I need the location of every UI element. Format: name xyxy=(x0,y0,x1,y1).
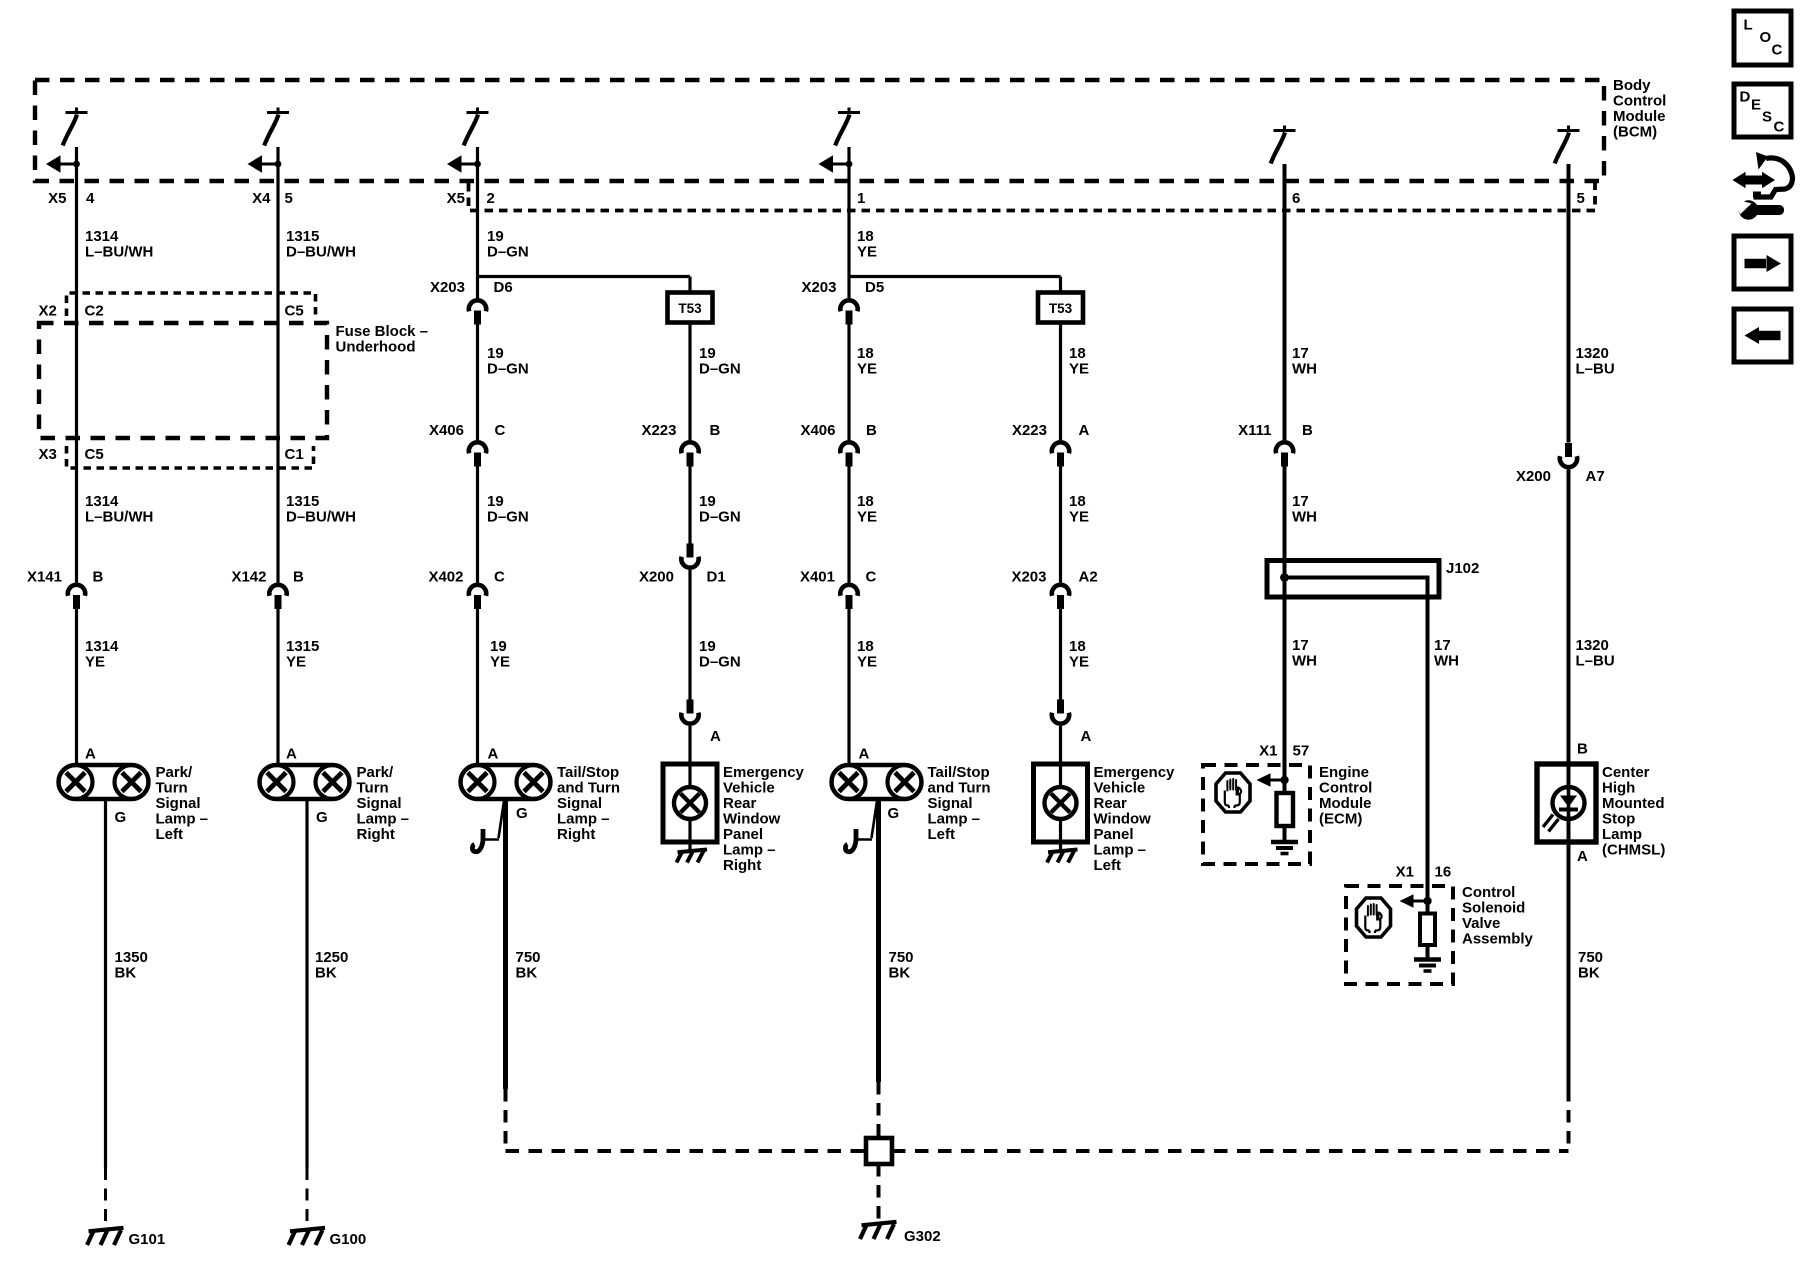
svg-text:X406: X406 xyxy=(429,422,464,439)
wire 17 WH X111 through J102 to ECM xyxy=(1283,467,1287,794)
wire label 19 D-GN (below T53) xyxy=(699,345,741,378)
svg-text:YE: YE xyxy=(286,654,306,671)
DESC reference box icon xyxy=(1734,84,1791,137)
CHMSL pin label A xyxy=(1577,848,1588,865)
svg-text:WH: WH xyxy=(1292,361,1317,378)
BCM internal switch (pin X5-4) xyxy=(63,108,88,146)
svg-text:X200: X200 xyxy=(639,569,674,586)
lamp pin label A xyxy=(488,746,499,763)
svg-text:BK: BK xyxy=(516,965,538,982)
svg-text:BK: BK xyxy=(315,965,337,982)
Emergency Vehicle Rear Window Panel Lamp - Left name xyxy=(1094,764,1176,874)
svg-text:D6: D6 xyxy=(494,279,513,296)
lamp pin label G xyxy=(316,809,328,826)
svg-text:B: B xyxy=(293,569,304,586)
svg-text:G302: G302 xyxy=(904,1228,941,1245)
svg-text:X401: X401 xyxy=(800,569,835,586)
svg-text:Assembly: Assembly xyxy=(1462,931,1534,948)
wire label 17 WH (below X111) xyxy=(1292,493,1317,526)
svg-text:D1: D1 xyxy=(707,569,726,586)
wire 19 D-GN X200 to lamp connector xyxy=(688,570,691,700)
svg-text:1315: 1315 xyxy=(286,638,319,655)
connector label X223 B xyxy=(641,422,720,439)
wire 19 YE to tail lamp xyxy=(476,609,479,765)
ground pigtail at right tail lamp xyxy=(472,801,504,852)
svg-text:YE: YE xyxy=(1069,509,1089,526)
Center High Mounted Stop Lamp box xyxy=(1537,764,1596,842)
svg-text:18: 18 xyxy=(857,493,874,510)
svg-text:5: 5 xyxy=(285,190,293,207)
svg-text:D–GN: D–GN xyxy=(699,509,741,526)
svg-text:Lamp –: Lamp – xyxy=(928,811,981,828)
svg-text:A: A xyxy=(488,746,499,763)
svg-text:Signal: Signal xyxy=(357,795,402,812)
dashed wire to G101 xyxy=(104,1168,107,1231)
wire label 1320 L-BU (lower) xyxy=(1576,637,1615,670)
Emergency Vehicle Rear Window Panel Lamp - Left box xyxy=(1034,764,1088,842)
svg-text:YE: YE xyxy=(857,509,877,526)
svg-text:BK: BK xyxy=(115,965,137,982)
svg-text:X406: X406 xyxy=(800,422,835,439)
svg-text:G101: G101 xyxy=(129,1231,166,1248)
svg-text:Right: Right xyxy=(557,826,595,843)
Emergency Vehicle Rear Window Panel Lamp - Right box xyxy=(663,764,717,842)
wire BCM pin 1 down xyxy=(847,147,850,298)
wire label 19 D-GN (third) xyxy=(487,493,529,526)
svg-text:G100: G100 xyxy=(330,1231,367,1248)
svg-text:G: G xyxy=(115,809,127,826)
wire label 1314 YE xyxy=(85,638,119,671)
ground G100 xyxy=(289,1228,326,1245)
svg-text:A: A xyxy=(85,746,96,763)
svg-text:17: 17 xyxy=(1292,345,1309,362)
wire 1320 L-BU to CHMSL xyxy=(1567,470,1571,765)
wire label 1350 BK xyxy=(115,949,148,982)
svg-text:Control: Control xyxy=(1462,884,1515,901)
wire label 18 YE (third) xyxy=(857,493,877,526)
wire resistor to ECM ground xyxy=(1283,826,1287,841)
Engine Control Module (ECM) dashed box xyxy=(1203,765,1310,864)
CHMSL pin label B xyxy=(1577,741,1588,758)
ground at EV lamp right xyxy=(677,850,708,863)
LOC reference box icon xyxy=(1734,11,1791,65)
BCM pin label 6 xyxy=(1292,190,1300,207)
wire label 750 BK (CHMSL) xyxy=(1578,949,1603,982)
svg-text:Solenoid: Solenoid xyxy=(1462,900,1525,917)
svg-text:Lamp –: Lamp – xyxy=(557,811,610,828)
BCM internal switch (pin X5-2) xyxy=(464,108,489,146)
BCM internal switch (pin X4-5) xyxy=(264,108,289,146)
wire 1350 BK lamp G to G101 xyxy=(104,799,107,1168)
svg-text:D–GN: D–GN xyxy=(487,361,529,378)
svg-text:18: 18 xyxy=(857,228,874,245)
Body Control Module (BCM) label xyxy=(1613,77,1666,141)
wire label 1320 L-BU (upper) xyxy=(1576,345,1615,378)
svg-text:B: B xyxy=(1577,741,1588,758)
Tail/Stop and Turn Signal Lamp - Left name xyxy=(928,764,991,843)
lamp pin label A xyxy=(85,746,96,763)
wire label 19 YE xyxy=(490,638,510,671)
connector pin label A xyxy=(710,728,721,745)
ECM pin label X1 57 xyxy=(1259,743,1309,760)
Fuse Block X2 connector dotted strip xyxy=(67,293,316,316)
wire 750 BK left tail lamp xyxy=(876,799,881,1082)
dashed wire 750 BK CHMSL to G302 net xyxy=(1567,1089,1571,1151)
svg-text:19: 19 xyxy=(487,345,504,362)
svg-text:and Turn: and Turn xyxy=(557,780,620,797)
svg-text:1250: 1250 xyxy=(315,949,348,966)
in-line connector X406 pin C xyxy=(469,442,486,466)
connector X3 pin labels C5 C1 xyxy=(39,446,304,463)
solenoid stop-hand icon xyxy=(1357,898,1391,937)
svg-text:YE: YE xyxy=(490,654,510,671)
svg-text:B: B xyxy=(866,422,877,439)
BCM internal left arrow (pin X5-2) xyxy=(447,155,481,173)
connector label X401 C xyxy=(800,569,877,586)
svg-text:Mounted: Mounted xyxy=(1602,795,1664,812)
svg-text:(ECM): (ECM) xyxy=(1319,811,1362,828)
wire BCM X5-2 down xyxy=(476,147,479,298)
svg-text:Left: Left xyxy=(1094,857,1122,874)
svg-text:C: C xyxy=(866,569,877,586)
svg-text:1315: 1315 xyxy=(286,228,319,245)
svg-text:Left: Left xyxy=(156,826,184,843)
svg-text:6: 6 xyxy=(1292,190,1300,207)
svg-text:L–BU/WH: L–BU/WH xyxy=(85,509,153,526)
svg-text:A: A xyxy=(1079,422,1090,439)
svg-text:Valve: Valve xyxy=(1462,915,1500,932)
svg-text:X402: X402 xyxy=(428,569,463,586)
BCM pin label 1 xyxy=(857,190,865,207)
BCM internal left arrow (pin X4-5) xyxy=(248,155,282,173)
svg-text:X111: X111 xyxy=(1238,422,1271,439)
svg-text:X1: X1 xyxy=(1396,864,1414,881)
svg-text:X5: X5 xyxy=(48,190,66,207)
splice pack J102 box xyxy=(1267,561,1439,598)
svg-text:B: B xyxy=(710,422,721,439)
wire label 18 YE (second) xyxy=(857,345,877,378)
svg-text:X4: X4 xyxy=(252,190,271,207)
Fuse Block X3 connector dotted strip xyxy=(67,446,314,468)
svg-text:D–BU/WH: D–BU/WH xyxy=(286,509,356,526)
Fuse Block - Underhood dashed box xyxy=(39,323,327,438)
connector pin label A xyxy=(1081,728,1092,745)
svg-text:4: 4 xyxy=(86,190,95,207)
connector label X200 A7 xyxy=(1516,468,1605,485)
earth ground inside ECM xyxy=(1271,842,1298,854)
wire label 1314 L-BU/WH (upper) xyxy=(85,228,153,261)
wire label 17 WH (upper) xyxy=(1292,345,1317,378)
svg-text:Tail/Stop: Tail/Stop xyxy=(557,764,619,781)
svg-text:WH: WH xyxy=(1434,653,1459,670)
svg-text:Park/: Park/ xyxy=(357,764,395,781)
in-line connector pin A (EV lamp left) xyxy=(1052,700,1069,724)
svg-text:X223: X223 xyxy=(641,422,676,439)
connector label X406 B xyxy=(800,422,877,439)
svg-text:YE: YE xyxy=(1069,361,1089,378)
svg-text:2: 2 xyxy=(487,190,495,207)
connector label X203 D6 xyxy=(430,279,513,296)
svg-text:(CHMSL): (CHMSL) xyxy=(1602,842,1665,859)
connector X2 pin labels C2 C5 xyxy=(39,303,304,320)
wire branch down to T53 (left) xyxy=(1059,277,1062,295)
svg-text:Vehicle: Vehicle xyxy=(1094,780,1146,797)
wire label 750 BK (left tail lamp) xyxy=(889,949,914,982)
svg-text:O: O xyxy=(1760,29,1772,46)
wire 750 BK below CHMSL xyxy=(1567,842,1571,1089)
svg-text:57: 57 xyxy=(1293,743,1310,760)
svg-text:Tail/Stop: Tail/Stop xyxy=(928,764,990,781)
BCM internal left arrow (pin X5-4) xyxy=(46,155,80,173)
svg-text:X203: X203 xyxy=(430,279,465,296)
svg-text:X3: X3 xyxy=(39,446,57,463)
svg-text:YE: YE xyxy=(857,654,877,671)
forward arrow reference box icon xyxy=(1734,236,1791,289)
in-line connector X406 pin B xyxy=(840,442,857,466)
svg-text:C5: C5 xyxy=(85,446,104,463)
BCM internal switch (pin 1) xyxy=(835,108,860,146)
wire to EV lamp right xyxy=(688,726,691,850)
svg-text:B: B xyxy=(93,569,104,586)
svg-text:C: C xyxy=(1774,119,1785,136)
svg-text:Body: Body xyxy=(1613,77,1651,94)
svg-text:750: 750 xyxy=(516,949,541,966)
svg-text:High: High xyxy=(1602,780,1635,797)
svg-text:Right: Right xyxy=(723,857,761,874)
wire 19 D-GN X203 to X406 xyxy=(476,325,479,441)
svg-text:Signal: Signal xyxy=(928,795,973,812)
in-line connector X203 pin D5 xyxy=(840,300,857,324)
svg-text:1320: 1320 xyxy=(1576,345,1609,362)
svg-text:X2: X2 xyxy=(39,303,57,320)
svg-text:L: L xyxy=(1744,17,1753,34)
svg-text:16: 16 xyxy=(1435,864,1452,881)
Park/Turn Signal Lamp - Right symbol xyxy=(260,765,350,799)
svg-text:C: C xyxy=(494,569,505,586)
wire T53 to X223 xyxy=(1059,323,1062,441)
svg-text:19: 19 xyxy=(699,493,716,510)
connector label X142 B xyxy=(231,569,304,586)
svg-text:L–BU: L–BU xyxy=(1576,653,1615,670)
in-line connector X111 pin B xyxy=(1276,442,1293,466)
wire label 19 D-GN (bottom) xyxy=(699,638,741,671)
J102 label xyxy=(1446,560,1479,577)
solenoid pin label X1 16 xyxy=(1396,864,1452,881)
wire label 17 WH (below J102 left) xyxy=(1292,637,1317,670)
svg-text:X203: X203 xyxy=(801,279,836,296)
svg-text:D–GN: D–GN xyxy=(699,361,741,378)
wire label 1250 BK xyxy=(315,949,348,982)
BCM connector face dotted strip xyxy=(469,183,1596,211)
BCM internal switch (pin 5) xyxy=(1555,126,1580,164)
svg-text:19: 19 xyxy=(699,345,716,362)
ECM internal resistor xyxy=(1277,793,1294,826)
svg-text:G: G xyxy=(888,805,900,822)
wire BCM X4-5 to X142 xyxy=(276,147,279,583)
svg-text:19: 19 xyxy=(490,638,507,655)
svg-text:X223: X223 xyxy=(1012,422,1047,439)
svg-text:Lamp –: Lamp – xyxy=(1094,842,1147,859)
BCM internal left arrow (pin 1) xyxy=(819,155,853,173)
svg-text:19: 19 xyxy=(487,493,504,510)
svg-text:and Turn: and Turn xyxy=(928,780,991,797)
wire 1314 YE to lamp xyxy=(75,609,78,765)
Tail/Stop and Turn Signal Lamp - Right name xyxy=(557,764,620,843)
wire 18 YE X203 to lamp connector xyxy=(1059,609,1062,700)
svg-text:X5: X5 xyxy=(447,190,465,207)
svg-text:Rear: Rear xyxy=(1094,795,1128,812)
bulb symbol (EV lamp right) xyxy=(674,787,706,819)
wire 18 YE X406 to X401 xyxy=(847,467,850,583)
twisted pair shield T53 (right circuit) xyxy=(668,293,713,323)
wire branch down to T53 (right) xyxy=(688,277,691,295)
svg-text:Control: Control xyxy=(1319,780,1372,797)
back arrow reference box icon xyxy=(1734,309,1791,362)
svg-text:19: 19 xyxy=(699,638,716,655)
svg-text:X142: X142 xyxy=(231,569,266,586)
svg-text:Right: Right xyxy=(357,826,395,843)
svg-text:D–GN: D–GN xyxy=(487,509,529,526)
Emergency Vehicle Rear Window Panel Lamp - Right name xyxy=(723,764,805,874)
ground label G101 xyxy=(129,1231,166,1248)
svg-text:L–BU/WH: L–BU/WH xyxy=(85,244,153,261)
in-line connector X203 pin A2 xyxy=(1052,585,1069,609)
in-line connector X223 pin A xyxy=(1052,442,1069,466)
solenoid internal resistor xyxy=(1420,914,1435,946)
wire label 750 BK (right tail lamp) xyxy=(516,949,541,982)
svg-text:D: D xyxy=(1740,89,1751,106)
wire label 1314 L-BU/WH (lower) xyxy=(85,493,153,526)
svg-text:19: 19 xyxy=(487,228,504,245)
wire label 1315 YE xyxy=(286,638,319,671)
wire label 18 YE (bottom) xyxy=(857,638,877,671)
wire resistor to solenoid ground xyxy=(1426,945,1430,959)
svg-text:18: 18 xyxy=(1069,493,1086,510)
lamp pin label G xyxy=(516,805,528,822)
svg-text:C1: C1 xyxy=(285,446,304,463)
svg-text:B: B xyxy=(1302,422,1313,439)
dashed wire 750 BK left tail lamp to G302 junction xyxy=(877,1082,881,1138)
lamp pin label A xyxy=(859,746,870,763)
svg-text:A7: A7 xyxy=(1586,468,1605,485)
svg-text:D–GN: D–GN xyxy=(699,654,741,671)
svg-text:Lamp –: Lamp – xyxy=(156,811,209,828)
ECM internal left arrow with junction xyxy=(1257,773,1289,787)
svg-text:Module: Module xyxy=(1613,108,1666,125)
ground G302 xyxy=(860,1222,897,1239)
Park/Turn Signal Lamp - Left name xyxy=(156,764,209,843)
svg-text:YE: YE xyxy=(1069,654,1089,671)
Fuse Block - Underhood label xyxy=(336,323,429,356)
svg-text:J102: J102 xyxy=(1446,560,1479,577)
lamp pin label A xyxy=(286,746,297,763)
diagnostic arrows and wrench icon xyxy=(1733,152,1793,220)
svg-text:WH: WH xyxy=(1292,509,1317,526)
solenoid internal left arrow with junction xyxy=(1400,894,1432,908)
svg-text:18: 18 xyxy=(857,345,874,362)
svg-text:Vehicle: Vehicle xyxy=(723,780,775,797)
twisted pair shield T53 (left circuit) xyxy=(1038,293,1083,323)
svg-text:A: A xyxy=(1577,848,1588,865)
svg-text:Underhood: Underhood xyxy=(336,339,416,356)
connector label X141 B xyxy=(27,569,104,586)
wire label 18 YE (bottom left circuit) xyxy=(1069,638,1089,671)
svg-text:Control: Control xyxy=(1613,93,1666,110)
ECM stop-hand icon xyxy=(1216,773,1250,812)
svg-text:750: 750 xyxy=(1578,949,1603,966)
svg-text:1314: 1314 xyxy=(85,493,119,510)
svg-text:Window: Window xyxy=(1094,811,1152,828)
BCM pin label 5 xyxy=(1577,190,1585,207)
wire 18 YE X203 to X406 xyxy=(847,325,850,441)
svg-text:17: 17 xyxy=(1292,637,1309,654)
svg-text:WH: WH xyxy=(1292,653,1317,670)
in-line connector X402 pin C xyxy=(469,585,486,609)
wire T53 to X223 xyxy=(688,323,691,441)
wire BCM pin 6 to X111 xyxy=(1283,164,1287,440)
svg-text:BK: BK xyxy=(889,965,911,982)
wire label 19 D-GN (top) xyxy=(487,228,529,261)
svg-text:18: 18 xyxy=(1069,638,1086,655)
wire BCM pin 5 to X200 xyxy=(1567,164,1571,443)
wire 18 YE X223 to X203 xyxy=(1059,467,1062,583)
wire 19 D-GN X406 to X402 xyxy=(476,467,479,583)
svg-text:Emergency: Emergency xyxy=(1094,764,1176,781)
branch wire to T53 right lamp circuit xyxy=(478,275,691,278)
svg-text:Window: Window xyxy=(723,811,781,828)
Control Solenoid Valve Assembly dashed box xyxy=(1346,886,1453,984)
wire label 19 D-GN (second) xyxy=(487,345,529,378)
connector label X111 B xyxy=(1238,422,1313,439)
svg-text:A2: A2 xyxy=(1079,569,1098,586)
svg-text:YE: YE xyxy=(85,654,105,671)
LED symbol inside CHMSL xyxy=(1543,787,1585,832)
svg-text:D–GN: D–GN xyxy=(487,244,529,261)
connector label X203 A2 xyxy=(1011,569,1097,586)
in-line connector X141 pin B xyxy=(68,585,85,609)
BCM pin label X5 2 xyxy=(447,190,495,207)
bulb symbol (EV lamp left) xyxy=(1045,787,1077,819)
in-line connector X142 pin B xyxy=(269,585,286,609)
ground at EV lamp left xyxy=(1047,850,1078,863)
svg-text:A: A xyxy=(859,746,870,763)
wire BCM X5-4 to X141 xyxy=(75,147,78,583)
svg-text:A: A xyxy=(286,746,297,763)
branch wire to T53 left lamp circuit xyxy=(849,275,1061,278)
svg-text:D–BU/WH: D–BU/WH xyxy=(286,244,356,261)
svg-text:L–BU: L–BU xyxy=(1576,361,1615,378)
svg-text:1314: 1314 xyxy=(85,638,119,655)
svg-text:Fuse Block –: Fuse Block – xyxy=(336,323,429,340)
svg-text:1314: 1314 xyxy=(85,228,119,245)
svg-text:G: G xyxy=(516,805,528,822)
svg-text:Emergency: Emergency xyxy=(723,764,805,781)
wire 19 D-GN X223 to X200 xyxy=(688,467,691,544)
BCM pin label X5 4 xyxy=(48,190,95,207)
svg-text:1: 1 xyxy=(857,190,865,207)
svg-text:Signal: Signal xyxy=(156,795,201,812)
Engine Control Module (ECM) label xyxy=(1319,764,1372,828)
ground net G302 horizontal dashed wire xyxy=(506,1149,1569,1153)
svg-text:G: G xyxy=(316,809,328,826)
svg-text:1350: 1350 xyxy=(115,949,148,966)
svg-text:S: S xyxy=(1762,109,1772,126)
in-line connector X223 pin B xyxy=(681,442,698,466)
Park/Turn Signal Lamp - Left symbol xyxy=(59,765,149,799)
svg-text:Stop: Stop xyxy=(1602,811,1635,828)
svg-text:X203: X203 xyxy=(1011,569,1046,586)
svg-text:Left: Left xyxy=(928,826,956,843)
